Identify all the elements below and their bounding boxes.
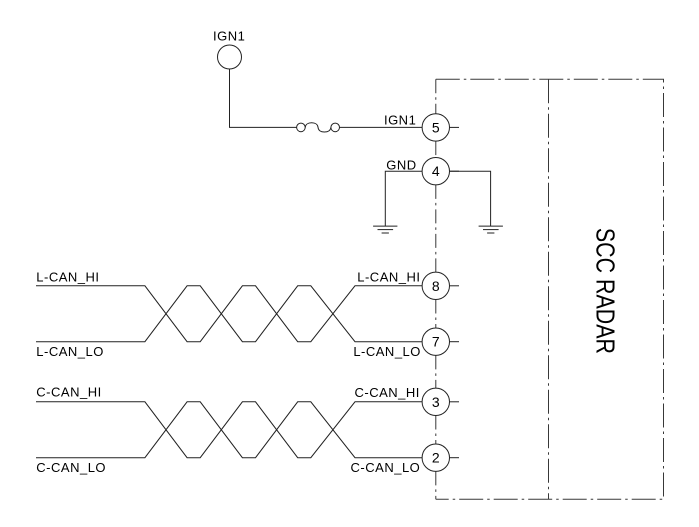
svg-text:2: 2 xyxy=(432,450,440,466)
svg-text:L-CAN_LO: L-CAN_LO xyxy=(36,344,104,359)
svg-text:IGN1: IGN1 xyxy=(213,29,245,44)
svg-text:C-CAN_HI: C-CAN_HI xyxy=(354,385,419,400)
svg-text:C-CAN_LO: C-CAN_LO xyxy=(36,460,106,475)
svg-text:SCC RADAR: SCC RADAR xyxy=(590,228,620,354)
svg-text:IGN1: IGN1 xyxy=(384,112,416,127)
svg-text:7: 7 xyxy=(432,334,440,350)
svg-text:L-CAN_LO: L-CAN_LO xyxy=(353,344,421,359)
svg-text:L-CAN_HI: L-CAN_HI xyxy=(36,269,99,284)
svg-text:C-CAN_HI: C-CAN_HI xyxy=(36,385,101,400)
svg-text:5: 5 xyxy=(432,119,440,135)
svg-text:3: 3 xyxy=(432,394,440,410)
svg-text:GND: GND xyxy=(386,158,416,173)
svg-text:4: 4 xyxy=(432,163,440,179)
svg-text:C-CAN_LO: C-CAN_LO xyxy=(351,460,421,475)
svg-text:L-CAN_HI: L-CAN_HI xyxy=(357,269,420,284)
svg-text:8: 8 xyxy=(432,278,440,294)
